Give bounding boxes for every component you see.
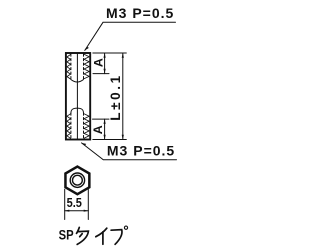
thread hatch ticks bottom-left band [67,114,71,139]
hexagon (end view) [65,167,89,195]
svg-text:A: A [91,125,105,134]
svg-text:5.5: 5.5 [67,195,83,210]
leader line top M3 [85,22,176,50]
spacer body outline (side view) [66,53,90,140]
svg-text:M3 P=0.5: M3 P=0.5 [106,5,174,21]
thread hidden line bottom-right [83,113,85,139]
top edge extension line [93,52,127,54]
leader line bottom M3 [82,143,177,160]
thread hidden line top-left [70,54,72,80]
thread depth extension line top [93,73,109,75]
thread hatch ticks top-right band [84,54,89,79]
katakana プ [111,226,128,244]
svg-text:SP: SP [59,228,74,244]
katakana イ [96,228,107,244]
drill bottom arc bottom hole [71,108,84,113]
thread hidden line top-right [83,54,85,80]
center axis line [76,53,78,140]
drill bottom arc top hole [71,80,84,83]
thread hatch ticks bottom-right band [84,114,89,139]
dimension line L [122,53,124,140]
thread hatch ticks top-left band [67,55,71,80]
svg-text:A: A [91,58,105,67]
svg-text:M3 P=0.5: M3 P=0.5 [107,143,175,159]
katakana タ [77,227,89,244]
dimension line 5.5 [65,210,89,212]
dimension line A bottom [104,119,106,139]
svg-text:L±0.1: L±0.1 [108,73,123,120]
thread major circle [70,173,84,187]
extension line hex left [64,189,66,219]
dimension line A top [104,53,106,74]
thread minor circle [73,175,83,185]
extension line hex right [87,189,89,219]
thread depth extension line bottom [93,118,110,120]
bottom edge extension line [93,139,127,141]
thread hidden line bottom-left [70,113,72,139]
